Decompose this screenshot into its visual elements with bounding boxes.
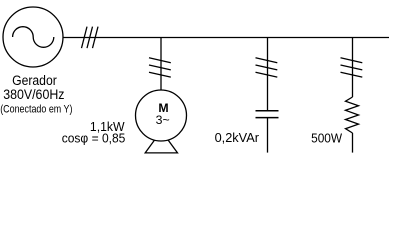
wire: motor branch vertical	[160, 38, 162, 91]
three-phase slashes on feeder	[82, 27, 99, 48]
svg-text:500W: 500W	[311, 132, 342, 146]
wire: capacitor branch vertical (bottom)	[267, 118, 269, 153]
resistor R1 zigzag	[346, 97, 359, 133]
wire: resistor branch vertical (top)	[352, 38, 354, 98]
svg-text:0,2kVAr: 0,2kVAr	[215, 131, 259, 145]
wire: feeder bus from generator to right edge	[63, 37, 389, 39]
capacitor C1 plates	[256, 110, 279, 112]
generator sine symbol	[13, 27, 54, 48]
generator G1 circle	[3, 7, 63, 67]
wire: capacitor branch vertical (top)	[267, 38, 269, 111]
svg-text:3~: 3~	[156, 113, 170, 127]
three-phase slashes on capacitor branch	[256, 58, 278, 77]
svg-text:cosφ = 0,85: cosφ = 0,85	[62, 131, 126, 145]
three-phase slashes on motor branch	[149, 58, 171, 77]
svg-text:380V/60Hz: 380V/60Hz	[3, 87, 65, 102]
svg-text:Gerador: Gerador	[12, 73, 57, 88]
motor M1 circle	[136, 90, 187, 141]
three-phase slashes on resistor branch	[341, 58, 363, 77]
motor mount triangle	[145, 131, 177, 153]
svg-text:(Conectado em Y): (Conectado em Y)	[0, 103, 72, 115]
wire: resistor branch vertical (bottom)	[352, 133, 354, 153]
